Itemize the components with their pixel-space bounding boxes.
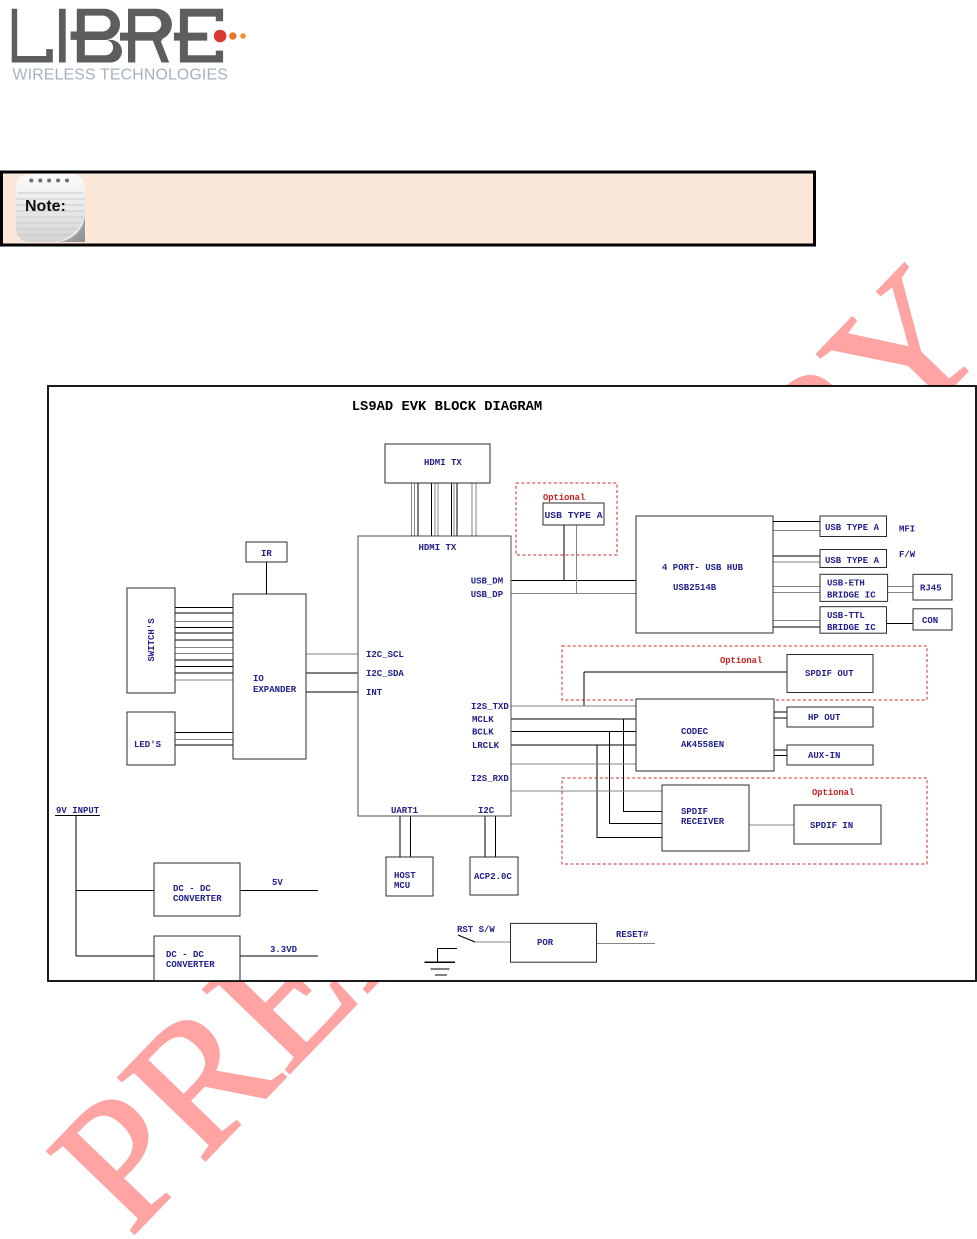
diagram frame bbox=[48, 386, 976, 981]
block HP OUT bbox=[787, 707, 873, 727]
svg-text:UART1: UART1 bbox=[391, 806, 419, 816]
wire bus HDMI TX to main block (11 lines) bbox=[411, 483, 476, 536]
svg-text:USB TYPE A: USB TYPE A bbox=[545, 511, 604, 521]
wire hub to USB TYPE A MFI pair bbox=[773, 520, 820, 522]
svg-text:LS9AD EVK BLOCK DIAGRAM: LS9AD EVK BLOCK DIAGRAM bbox=[352, 400, 542, 415]
wire SPDIF OUT tap horizontal bbox=[584, 671, 787, 673]
svg-text:CONVERTER: CONVERTER bbox=[173, 894, 222, 904]
wire bus LED'S to IO EXPANDER (3 lines) bbox=[175, 732, 233, 745]
block USB-ETH BRIDGE IC bbox=[820, 574, 888, 601]
block DC-DC converter 1 bbox=[154, 863, 240, 916]
svg-text:SWITCH'S: SWITCH'S bbox=[147, 618, 157, 662]
wire BCLK branch to SPDIF receiver bbox=[609, 732, 662, 824]
wire LRCLK main to codec bbox=[511, 744, 636, 746]
svg-text:RECEIVER: RECEIVER bbox=[681, 817, 725, 827]
svg-text:MCU: MCU bbox=[394, 881, 410, 891]
wire switch to POR bbox=[475, 941, 511, 943]
letter E bbox=[174, 9, 223, 63]
letter R bbox=[120, 9, 172, 63]
svg-text:USB-ETH: USB-ETH bbox=[827, 579, 865, 589]
block CODEC AK4558EN bbox=[636, 699, 774, 771]
svg-text:I2C_SDA: I2C_SDA bbox=[366, 669, 404, 679]
logo dot red bbox=[214, 30, 227, 43]
wire USB-ETH to RJ45 pair bbox=[888, 586, 913, 588]
wire 3.3VD output bbox=[240, 955, 318, 957]
note icon notepad bbox=[16, 174, 85, 242]
block LED'S bbox=[127, 712, 175, 765]
svg-text:Optional: Optional bbox=[543, 493, 585, 503]
svg-text:Optional: Optional bbox=[720, 656, 762, 666]
block HOST MCU bbox=[386, 857, 433, 896]
svg-text:SPDIF OUT: SPDIF OUT bbox=[805, 669, 854, 679]
block POR bbox=[511, 923, 597, 962]
svg-text:I2C_SCL: I2C_SCL bbox=[366, 650, 404, 660]
block IO EXPANDER bbox=[233, 594, 306, 759]
svg-text:MCLK: MCLK bbox=[472, 715, 494, 725]
block USB TYPE A (optional) bbox=[543, 503, 604, 525]
wire codec to main return bbox=[511, 763, 636, 765]
logo dot light orange bbox=[240, 33, 246, 39]
wire SPDIF receiver to SPDIF IN bbox=[749, 824, 794, 826]
note box bbox=[2, 172, 815, 245]
svg-text:USB TYPE A: USB TYPE A bbox=[825, 523, 880, 533]
wire I2C drops to ACP2.0C bbox=[484, 816, 486, 857]
block main SoC bbox=[358, 536, 511, 816]
wire INT IO EXPANDER to main bbox=[306, 691, 358, 693]
svg-text:AK4558EN: AK4558EN bbox=[681, 740, 724, 750]
wire optional USB TYPE A drop DM bbox=[563, 525, 565, 580]
block USB TYPE A F/W bbox=[820, 550, 887, 568]
svg-text:IO: IO bbox=[253, 674, 264, 684]
wire codec to AUX-IN pair bbox=[774, 749, 787, 751]
block SPDIF IN bbox=[794, 805, 881, 844]
wire USB_DM main to USB hub bbox=[511, 579, 636, 581]
svg-text:CONVERTER: CONVERTER bbox=[166, 960, 215, 970]
wire hub to USB-TTL pair bbox=[773, 620, 820, 622]
optional box 2 (SPDIF OUT) dashed outline bbox=[562, 646, 927, 700]
svg-text:Note:: Note: bbox=[25, 198, 66, 215]
block ACP2.0C bbox=[470, 857, 518, 895]
block USB-TTL BRIDGE IC bbox=[820, 607, 887, 634]
wire bus SWITCH'S to IO EXPANDER (12 lines) bbox=[175, 607, 233, 680]
svg-text:CODEC: CODEC bbox=[681, 727, 709, 737]
svg-text:HDMI TX: HDMI TX bbox=[424, 458, 462, 468]
ground symbol bbox=[424, 949, 457, 975]
wire MCLK branch to SPDIF receiver bbox=[623, 719, 662, 811]
svg-text:INT: INT bbox=[366, 688, 383, 698]
svg-text:I2S_RXD: I2S_RXD bbox=[471, 774, 509, 784]
block SPDIF OUT bbox=[787, 655, 873, 693]
wire codec to HP OUT pair bbox=[774, 711, 787, 713]
svg-text:EXPANDER: EXPANDER bbox=[253, 685, 297, 695]
svg-text:RESET#: RESET# bbox=[616, 930, 649, 940]
block IR bbox=[246, 542, 287, 562]
wire IR to IO EXPANDER bbox=[266, 562, 268, 594]
wire MCLK main to codec bbox=[511, 718, 636, 720]
letter L bbox=[12, 9, 53, 63]
svg-text:DC - DC: DC - DC bbox=[173, 884, 211, 894]
svg-text:SPDIF IN: SPDIF IN bbox=[810, 821, 853, 831]
svg-text:HP OUT: HP OUT bbox=[808, 713, 841, 723]
wire 9V branch to DC-DC 1 bbox=[76, 889, 154, 891]
block USB TYPE A MFI bbox=[820, 516, 887, 537]
svg-text:USB2514B: USB2514B bbox=[673, 583, 717, 593]
svg-text:9V INPUT: 9V INPUT bbox=[56, 806, 100, 816]
svg-text:BRIDGE IC: BRIDGE IC bbox=[827, 623, 876, 633]
svg-text:HOST: HOST bbox=[394, 871, 416, 881]
svg-text:RJ45: RJ45 bbox=[920, 584, 942, 594]
wire 5V output bbox=[240, 889, 318, 891]
wire POR to RESET# bbox=[597, 943, 656, 945]
watermark PRELIMINARY bbox=[20, 237, 977, 1239]
wire optional USB TYPE A drop DP bbox=[576, 525, 578, 594]
block DC-DC converter 2 bbox=[154, 936, 240, 981]
svg-text:RST S/W: RST S/W bbox=[457, 925, 495, 935]
wire hub to USB-ETH pair bbox=[773, 586, 820, 588]
svg-text:3.3VD: 3.3VD bbox=[270, 945, 298, 955]
svg-text:USB TYPE A: USB TYPE A bbox=[825, 556, 880, 566]
letter I bbox=[59, 9, 66, 63]
svg-text:I2C: I2C bbox=[478, 806, 495, 816]
svg-text:BRIDGE IC: BRIDGE IC bbox=[827, 591, 876, 601]
block HDMI TX (top) bbox=[385, 444, 490, 483]
block CON bbox=[913, 609, 952, 630]
svg-text:SPDIF: SPDIF bbox=[681, 807, 708, 817]
svg-text:MFI: MFI bbox=[899, 525, 915, 535]
wire I2C_SCL IO EXPANDER to main bbox=[306, 653, 358, 655]
wire 9V INPUT terminal bbox=[55, 815, 100, 817]
optional box 1 (USB TYPE A) dashed outline bbox=[516, 483, 617, 555]
block SPDIF RECEIVER bbox=[662, 785, 749, 851]
svg-text:4 PORT- USB HUB: 4 PORT- USB HUB bbox=[662, 563, 744, 573]
switch RST S/W blade bbox=[458, 935, 475, 942]
svg-text:IR: IR bbox=[261, 549, 272, 559]
svg-text:Optional: Optional bbox=[812, 788, 854, 798]
wire I2C_SDA IO EXPANDER to main bbox=[306, 672, 358, 674]
wire I2S_TXD main to codec bbox=[511, 705, 636, 707]
svg-text:DC - DC: DC - DC bbox=[166, 950, 204, 960]
wire 9V branch to DC-DC 2 bbox=[76, 955, 154, 957]
svg-text:BCLK: BCLK bbox=[472, 728, 494, 738]
wire UART1 drops to HOST MCU bbox=[399, 816, 401, 857]
wire USB_DP main to USB hub bbox=[511, 593, 636, 595]
block AUX-IN bbox=[787, 745, 873, 765]
logo dot orange bbox=[229, 32, 236, 39]
wire hub to USB TYPE A F/W pair bbox=[773, 555, 820, 557]
block SWITCH'S bbox=[127, 588, 175, 693]
block 4 PORT USB HUB USB2514B bbox=[636, 516, 773, 633]
svg-text:ACP2.0C: ACP2.0C bbox=[474, 872, 512, 882]
wire 9V vertical rail bbox=[75, 816, 77, 957]
svg-text:LED'S: LED'S bbox=[134, 740, 162, 750]
svg-text:USB_DM: USB_DM bbox=[471, 577, 503, 587]
svg-text:5V: 5V bbox=[272, 878, 283, 888]
wire USB-TTL to CON bbox=[887, 623, 914, 625]
block RJ45 bbox=[913, 574, 952, 600]
svg-text:F/W: F/W bbox=[899, 550, 916, 560]
svg-text:I2S_TXD: I2S_TXD bbox=[471, 702, 509, 712]
svg-text:CON: CON bbox=[922, 616, 938, 626]
svg-text:LRCLK: LRCLK bbox=[472, 741, 500, 751]
wire I2S_RXD main to SPDIF receiver bbox=[511, 790, 662, 792]
svg-text:WIRELESS TECHNOLOGIES: WIRELESS TECHNOLOGIES bbox=[13, 67, 228, 84]
wire BCLK main to codec bbox=[511, 731, 636, 733]
letter B bbox=[71, 9, 122, 63]
wire LRCLK branch to SPDIF receiver bbox=[597, 745, 662, 837]
wire SPDIF OUT tap vertical bbox=[583, 672, 585, 706]
svg-text:USB_DP: USB_DP bbox=[471, 590, 504, 600]
logo LIBRE wordmark bbox=[12, 9, 223, 63]
svg-text:AUX-IN: AUX-IN bbox=[808, 751, 840, 761]
svg-text:POR: POR bbox=[537, 938, 554, 948]
svg-text:USB-TTL: USB-TTL bbox=[827, 611, 865, 621]
svg-text:HDMI TX: HDMI TX bbox=[419, 543, 457, 553]
optional box 3 (SPDIF IN) dashed outline bbox=[562, 778, 927, 864]
